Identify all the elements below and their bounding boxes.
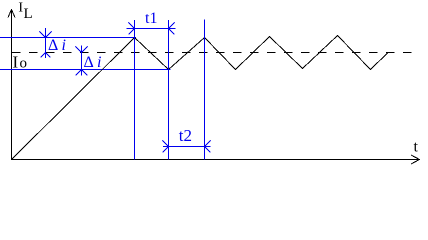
t1 dimension line <box>127 28 176 30</box>
svg-text:i: i <box>62 37 66 54</box>
delta-i dimension 2 line <box>81 46 83 76</box>
delta-i dimension 1 line <box>45 28 47 58</box>
svg-text:Δ: Δ <box>84 54 94 71</box>
svg-text:L: L <box>24 6 33 22</box>
extension line at peak1 <box>134 20 136 160</box>
svg-text:i: i <box>97 54 101 71</box>
t2 dimension line <box>163 146 211 148</box>
svg-text:o: o <box>20 55 28 71</box>
delta-i dim2 bottom arrowhead <box>76 70 88 76</box>
svg-text:I: I <box>13 52 19 71</box>
inductor current waveform <box>12 36 389 160</box>
y-axis (current axis) <box>11 10 13 160</box>
svg-text:t: t <box>414 139 419 156</box>
t1 left arrowhead <box>129 23 135 35</box>
delta-i dim1 top arrowhead <box>40 32 52 38</box>
peak level line (blue) <box>0 37 136 39</box>
x-axis (time axis) <box>11 159 419 161</box>
svg-text:t2: t2 <box>179 126 192 145</box>
x-axis arrowhead <box>411 155 420 164</box>
extension line at peak2 <box>204 20 206 160</box>
t2 left arrowhead <box>163 141 169 153</box>
t2 right arrowhead <box>205 141 211 153</box>
dashed average line <box>12 52 419 54</box>
delta-i dim1 bottom arrowhead <box>41 53 51 58</box>
svg-text:t1: t1 <box>145 10 157 27</box>
I0 level line (blue) <box>0 69 171 71</box>
svg-text:Δ: Δ <box>48 37 58 54</box>
extension line at valley1 <box>168 20 170 160</box>
t1 right arrowhead <box>169 23 175 35</box>
y-axis arrowhead <box>8 10 15 18</box>
delta-i dim2 top arrowhead <box>76 47 88 53</box>
